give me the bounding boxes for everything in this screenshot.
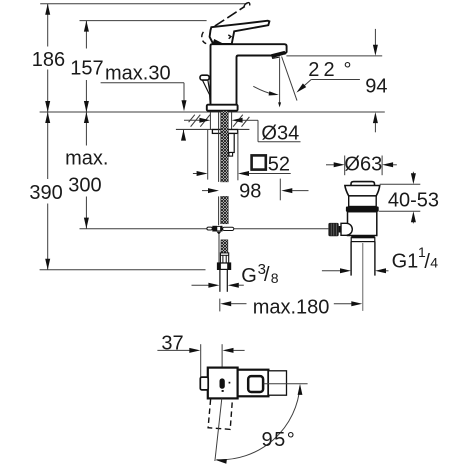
plan aerator square (248, 376, 263, 392)
svg-text:94: 94 (365, 76, 387, 98)
waste upper column (349, 196, 377, 207)
svg-text:/: / (264, 264, 270, 286)
svg-text:95°: 95° (262, 429, 297, 451)
base plate (207, 105, 238, 111)
lever handle at rest (210, 21, 270, 44)
waste body (348, 212, 377, 236)
dim diam63 arrows (326, 164, 334, 166)
svg-text:186: 186 (32, 49, 65, 71)
junction block (212, 226, 217, 232)
top reference line (186/390 datum) (40, 3, 247, 5)
waste center seam / max180 extension (362, 243, 364, 311)
svg-text:max.: max. (65, 147, 108, 169)
svg-text:40-53: 40-53 (388, 190, 439, 212)
waste lever knurled knob (328, 223, 338, 236)
waste tailpipe (350, 242, 352, 276)
dim 37 extension lines (200, 344, 202, 378)
dimension line 186-390 vertical x=47.7 (47, 4, 49, 47)
mounting washer (212, 130, 237, 134)
dim max180 left tick (219, 299, 221, 312)
waste plug cap (351, 182, 375, 188)
waste flange (345, 186, 380, 196)
waste lever neck (339, 226, 342, 233)
dim max180 arrows (220, 301, 231, 306)
dim 40-53 reference lines (380, 183, 421, 185)
svg-text:G1: G1 (392, 250, 419, 272)
plan handle block (208, 368, 238, 399)
waste lever ball housing (341, 223, 352, 235)
svg-text:Ø63: Ø63 (344, 153, 382, 175)
plan pop-up knob (200, 377, 208, 390)
swivel tilted centerline (215, 399, 222, 462)
waste o-ring seal (346, 207, 379, 212)
pop-up rod above counter (203, 80, 211, 104)
pop-up rod clevis left (207, 227, 212, 230)
water stream vertical line (279, 58, 281, 103)
dim 40-53 arrows (412, 172, 414, 174)
svg-text:390: 390 (29, 182, 62, 204)
svg-text:98: 98 (239, 181, 261, 203)
dim diam63 extension ticks (344, 156, 346, 176)
mounting bracket (228, 134, 234, 153)
spout height reference line (286, 55, 382, 57)
dim square52 arrows (193, 173, 197, 175)
plan body block (238, 370, 269, 397)
svg-text:37: 37 (161, 332, 183, 354)
spout aerator (272, 52, 286, 58)
waste bottom band (351, 236, 375, 238)
svg-text:G: G (241, 265, 257, 287)
faucet body outline (211, 44, 287, 104)
dim 37 arrows (157, 349, 189, 351)
svg-text:max.30: max.30 (105, 62, 171, 84)
supply hose braided middle (221, 196, 229, 223)
lever raised dashed position (215, 6, 245, 26)
reference line for 157 (lever top) (80, 20, 207, 22)
dim Ø34 arrows and leader (184, 119, 200, 121)
dimension line 157-max300 vertical x=86.4 (85, 21, 87, 49)
pop-up rod knob (200, 75, 209, 80)
counter hatching right (233, 115, 249, 127)
handle shadow wedge (213, 40, 223, 44)
95deg swivel arc (216, 386, 300, 460)
svg-text:52: 52 (268, 153, 290, 175)
svg-text:4: 4 (430, 255, 438, 271)
supply hose braided lower (221, 240, 228, 253)
dim square52 extension lines (207, 130, 209, 180)
plan lever slot (220, 378, 225, 388)
svg-text:8: 8 (271, 270, 279, 286)
counter bottom line (176, 128, 250, 130)
hose connector ribbed (220, 253, 228, 263)
counter top line (40, 111, 385, 113)
dim G1-1/4 arrows (322, 270, 340, 272)
plan centerline (264, 383, 308, 385)
dim G3/8 arrows (192, 284, 209, 286)
pop-up linkage rod / max.300 datum line (80, 228, 207, 230)
plan spout extension (268, 371, 286, 395)
counter hole edges (209, 112, 211, 129)
svg-text:max.180: max.180 (253, 296, 330, 318)
bottom reference line (390 end) (40, 269, 206, 271)
square symbol (252, 155, 266, 169)
plan swivelled spout dashed (208, 400, 232, 430)
waste slip collar (351, 238, 375, 242)
22deg leader (301, 80, 312, 89)
water stream tilted line 22deg (282, 57, 297, 101)
dim 98 arrows (202, 190, 208, 192)
plan detail dots (229, 382, 231, 384)
hose hex nut (218, 263, 231, 269)
pop-up rod clevis right (223, 227, 234, 230)
22deg arc (253, 86, 274, 94)
G3/8 thread tails (219, 269, 221, 291)
svg-text:Ø34: Ø34 (261, 123, 299, 145)
svg-text:300: 300 (68, 174, 101, 196)
svg-text:22°: 22° (308, 59, 351, 81)
svg-text:157: 157 (70, 58, 103, 80)
counter hatching left (189, 115, 210, 127)
supply hose braided upper (221, 111, 229, 182)
dim 94 arrows (374, 29, 376, 45)
lever pivot dashed arc (202, 32, 204, 37)
pop-up vertical rod below counter (218, 112, 220, 182)
max.30 leader and arrows (101, 82, 184, 84)
dim 98 extension tick (279, 179, 281, 201)
